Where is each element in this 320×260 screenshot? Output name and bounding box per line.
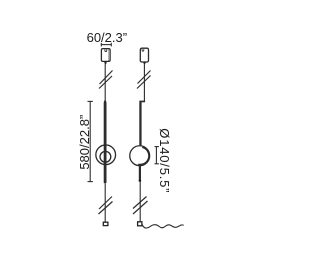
- plug right: [138, 222, 142, 226]
- canopy left hook: [105, 49, 107, 51]
- ring left: [96, 145, 116, 165]
- vertical dimension line 580: [88, 101, 93, 181]
- sphere diameter dimension bar: [155, 147, 159, 164]
- connector under left canopy: [104, 61, 107, 64]
- rod lower right: [139, 165, 141, 181]
- svg-text:60/2.3”: 60/2.3”: [87, 30, 127, 45]
- rod lower right cap: [139, 180, 141, 182]
- canopy right: [140, 48, 148, 62]
- connector under right canopy: [143, 62, 146, 64]
- sphere shade arc: [138, 147, 149, 164]
- upper cable left: [104, 64, 106, 101]
- cable break lower left: [99, 197, 113, 215]
- sphere right: [130, 146, 150, 166]
- upper cable right: [143, 64, 145, 101]
- rod left: [104, 100, 107, 183]
- rod upper right: [139, 101, 141, 147]
- lower cable left: [104, 183, 106, 222]
- dimension line canopy width: [101, 43, 111, 47]
- plug left: [103, 222, 108, 225]
- cable break upper right: [137, 71, 151, 89]
- elbow right: [140, 101, 146, 103]
- inner sphere left: [100, 151, 111, 162]
- cable break lower right: [133, 197, 148, 215]
- canopy left: [101, 49, 110, 62]
- mains lead wavy: [142, 224, 184, 228]
- svg-text:Ø140/5.5”: Ø140/5.5”: [157, 128, 172, 193]
- svg-text:580/22.8”: 580/22.8”: [77, 115, 92, 170]
- canopy left ribbed edge: [107, 50, 109, 61]
- canopy right hook: [142, 49, 144, 51]
- lower cable right: [139, 182, 141, 222]
- cable break upper left: [99, 71, 113, 89]
